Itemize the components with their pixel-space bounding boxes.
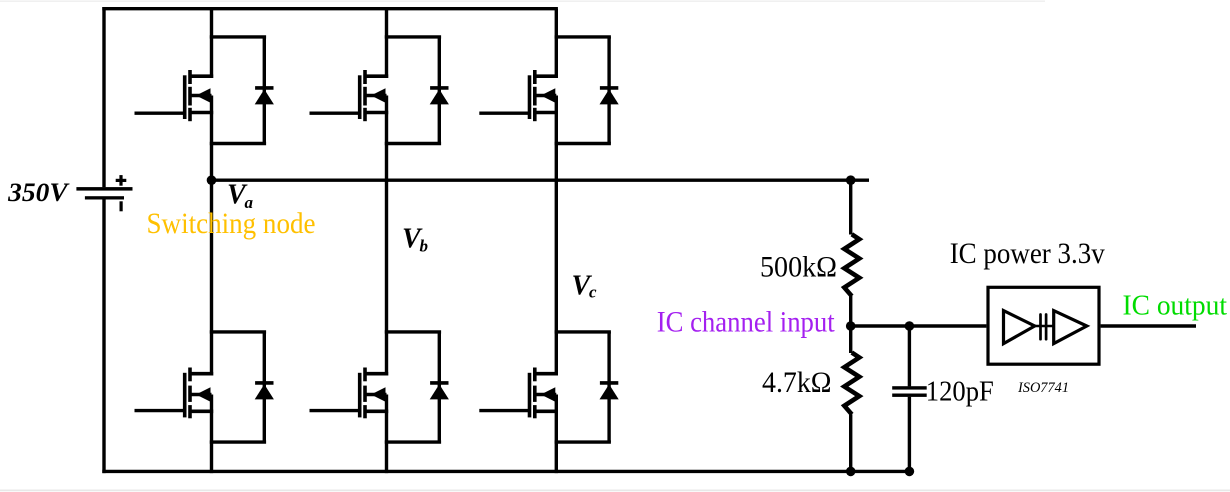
battery V1 minus sign bbox=[120, 201, 123, 211]
wire diode branch bottom bbox=[555, 142, 611, 145]
wire diode branch bottom bbox=[210, 440, 266, 443]
wire gate lead bbox=[310, 409, 360, 412]
wire drain leg bbox=[555, 179, 558, 376]
wire diode branch bottom bbox=[555, 440, 611, 443]
battery V1 plate long (+) bbox=[76, 187, 132, 191]
wire divider bottom lead bbox=[849, 326, 852, 353]
wire diode branch bottom bbox=[385, 440, 441, 443]
wire faint page bottom edge bbox=[0, 489, 1230, 491]
transistor Q6 bbox=[530, 368, 559, 419]
node Va junction dot bbox=[207, 175, 217, 185]
wire diode branch bottom bbox=[210, 142, 266, 145]
wire diode branch top bbox=[555, 330, 611, 333]
node IC channel input junction dot bbox=[846, 321, 856, 331]
op-amp U1 input buffer triangle bbox=[1004, 311, 1035, 344]
node divider ground junction dot bbox=[846, 467, 856, 477]
wire gate lead bbox=[135, 111, 185, 114]
node capacitor ground junction dot bbox=[905, 467, 915, 477]
svg-text:IC output: IC output bbox=[1123, 291, 1228, 322]
wire diode branch top bbox=[210, 35, 266, 38]
node rail-to-divider junction dot bbox=[846, 175, 856, 185]
wire source leg bbox=[555, 96, 558, 182]
wire capacitor bottom lead bbox=[908, 397, 911, 472]
battery V1 plus sign bbox=[116, 179, 127, 182]
op-amp U1 output buffer triangle bbox=[1054, 311, 1087, 344]
wire source leg bbox=[385, 395, 388, 474]
wire drain leg bbox=[555, 9, 558, 78]
wire diode branch top bbox=[555, 35, 611, 38]
wire gate lead bbox=[479, 111, 529, 114]
diode D5 bbox=[430, 332, 449, 442]
transistor Q2 bbox=[360, 70, 389, 121]
svg-text:IC power 3.3v: IC power 3.3v bbox=[950, 238, 1105, 270]
transistor Q1 bbox=[185, 70, 214, 121]
wire source leg bbox=[555, 395, 558, 474]
battery V1 plate short (-) bbox=[85, 196, 124, 199]
diode D4 bbox=[255, 332, 274, 442]
diode D1 bbox=[255, 37, 274, 144]
wire diode branch bottom bbox=[385, 142, 441, 145]
wire divider to ground bbox=[849, 414, 852, 471]
resistor R1 500k bbox=[844, 234, 859, 296]
wire DC+ left drop to battery bbox=[102, 7, 105, 187]
op-amp U1 isolator box bbox=[988, 287, 1099, 364]
wire IC output lead bbox=[1101, 324, 1196, 327]
diode D2 bbox=[430, 37, 449, 144]
wire source leg bbox=[210, 96, 213, 182]
svg-text:c: c bbox=[589, 283, 597, 302]
svg-text:350V: 350V bbox=[7, 177, 70, 207]
wire switching-node rail Va bus bbox=[212, 178, 870, 181]
wire U1 internal link bbox=[1034, 325, 1055, 328]
wire faint page top edge bbox=[0, 0, 1045, 2]
wire DC- bottom rail bbox=[102, 470, 910, 473]
wire capacitor top lead bbox=[908, 326, 911, 386]
wire divider middle lead bbox=[849, 296, 852, 326]
wire source leg bbox=[385, 96, 388, 182]
resistor R2 4.7k bbox=[844, 353, 859, 415]
wire source leg bbox=[210, 395, 213, 474]
transistor Q3 bbox=[530, 70, 559, 121]
svg-text:b: b bbox=[420, 237, 429, 256]
svg-text:500kΩ: 500kΩ bbox=[760, 251, 837, 284]
wire gate lead bbox=[310, 111, 360, 114]
wire gate lead bbox=[135, 409, 185, 412]
wire drain leg bbox=[210, 9, 213, 78]
svg-text:ISO7741: ISO7741 bbox=[1017, 380, 1069, 396]
svg-text:Switching node: Switching node bbox=[147, 208, 316, 240]
wire node to IC input bbox=[851, 324, 987, 327]
node capacitor tap junction dot bbox=[905, 321, 915, 331]
wire drain leg bbox=[210, 179, 213, 376]
svg-text:IC channel input: IC channel input bbox=[657, 307, 836, 339]
wire DC- left riser from battery bbox=[102, 199, 105, 473]
svg-text:120pF: 120pF bbox=[926, 376, 994, 407]
diode D3 bbox=[600, 37, 619, 144]
wire divider top lead bbox=[849, 179, 852, 235]
wire gate lead bbox=[479, 409, 529, 412]
diode D6 bbox=[600, 332, 619, 442]
wire DC+ top rail bbox=[102, 7, 558, 10]
wire drain leg bbox=[385, 9, 388, 78]
wire drain leg bbox=[385, 179, 388, 376]
op-amp U1 isolation barrier bbox=[1039, 315, 1042, 340]
capacitor C1 120pF bbox=[892, 386, 927, 389]
wire diode branch top bbox=[385, 330, 441, 333]
transistor Q5 bbox=[360, 368, 389, 419]
wire diode branch top bbox=[385, 35, 441, 38]
svg-text:4.7kΩ: 4.7kΩ bbox=[762, 366, 832, 399]
transistor Q4 bbox=[185, 368, 214, 419]
wire diode branch top bbox=[210, 330, 266, 333]
